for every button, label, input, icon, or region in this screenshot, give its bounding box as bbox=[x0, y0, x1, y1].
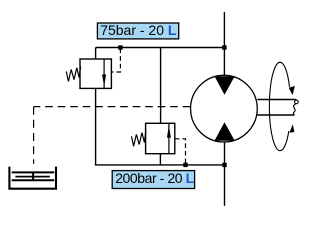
wire: valve V2 bottom stub bbox=[159, 154, 161, 165]
valve V2 spring bbox=[132, 131, 146, 146]
rotation arrowhead bottom bbox=[289, 124, 294, 133]
wire: motor bottom line bbox=[224, 141, 226, 206]
svg-text:75bar - 20 L: 75bar - 20 L bbox=[100, 22, 177, 38]
tank fluid line top bbox=[12, 171, 55, 173]
tank pipe end dash bbox=[32, 172, 34, 180]
tank fluid line middle bbox=[15, 176, 49, 178]
label L1 box 75bar bbox=[97, 23, 178, 39]
drain line (dashed) from motor case to tank bbox=[34, 106, 191, 108]
relief valve V2 body bbox=[146, 123, 175, 153]
junction node on top wire at motor riser bbox=[222, 45, 226, 49]
valve V1 spring bbox=[66, 66, 80, 81]
shaft break symbol bbox=[295, 100, 299, 104]
rotation arrowhead top bbox=[289, 86, 295, 95]
motor bottom triangle bbox=[215, 122, 235, 141]
valve V2 flow path arrow bbox=[168, 123, 170, 153]
junction node on bottom wire at pilot V2 bbox=[183, 163, 187, 167]
wire: pressure supply riser to motor top bbox=[223, 12, 225, 77]
tank T1 walls bbox=[9, 167, 56, 189]
junction node on bottom wire at motor line bbox=[222, 163, 226, 167]
rotation ellipse (bidirectional arrows) bbox=[269, 62, 289, 150]
junction node on top wire at pilot V1 bbox=[118, 45, 122, 49]
wire: riser to valve V1 top bbox=[95, 48, 97, 60]
label L2 box 200bar bbox=[112, 171, 194, 189]
wire: valve V1 bottom drop + bottom horizontal return bbox=[96, 88, 225, 165]
pilot line (dashed) of valve V2 bbox=[175, 139, 186, 164]
pilot line (dashed) of valve V1 bbox=[112, 49, 121, 73]
svg-text:200bar - 20 L: 200bar - 20 L bbox=[115, 170, 194, 186]
motor shaft bbox=[257, 99, 296, 101]
motor top triangle bbox=[215, 76, 235, 95]
wire: top horizontal line bbox=[96, 47, 225, 49]
hydraulic motor U1 circle bbox=[191, 75, 258, 142]
drain line (dashed) vertical to tank bbox=[33, 107, 35, 164]
tank fluid line bottom bbox=[12, 179, 55, 181]
wire: riser to valve V2 top bbox=[160, 48, 162, 124]
valve V1 flow path arrow bbox=[103, 59, 105, 88]
relief valve V1 body bbox=[80, 59, 111, 88]
